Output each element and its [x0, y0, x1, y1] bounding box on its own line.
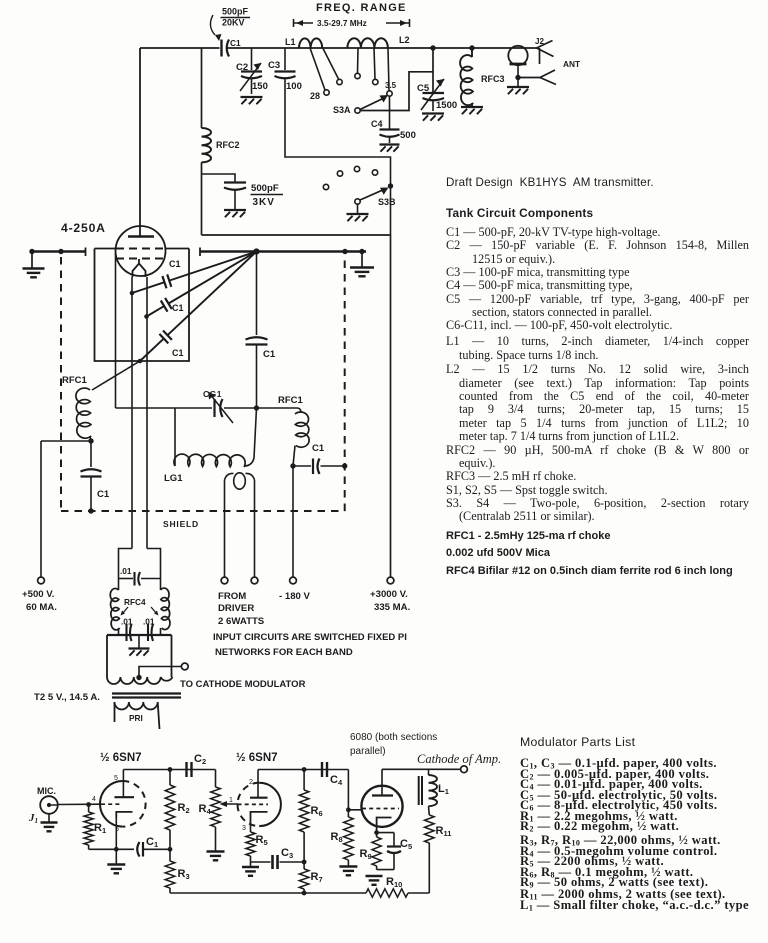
wire V4 plate to cathode-of-amp: [382, 768, 461, 770]
inductor L1-L2 tapped tank coil: [285, 35, 410, 48]
label FROM DRIVER: [218, 591, 265, 627]
svg-text:C1: C1: [169, 259, 181, 269]
wire RFC1b feed: [257, 407, 298, 409]
svg-text:RFC1: RFC1: [62, 375, 88, 386]
wire filament lead B: [146, 277, 148, 549]
tube V4 cathode: [377, 818, 392, 833]
wire plate supply left leg: [201, 48, 203, 235]
tube V1 4-250A envelope: [116, 226, 166, 276]
wire +3000V feed: [390, 235, 392, 577]
pin 5 V2: [114, 775, 118, 782]
wire V2 cathode down: [114, 818, 119, 864]
terminal +3000V: [387, 577, 394, 584]
capacitor C1 bypass a: [130, 252, 257, 296]
capacitor C4 500pF: [371, 96, 416, 143]
capacitor .01 lower right: [143, 617, 155, 642]
label -180V: [279, 591, 311, 602]
svg-text:- 180 V: - 180 V: [279, 591, 311, 602]
tube V4 grid (dashed): [362, 808, 399, 810]
wire filament lead A: [131, 277, 133, 549]
capacitor C1 bypass c: [138, 252, 257, 364]
capacitor C1 grid bypass: [290, 443, 347, 474]
svg-text:500: 500: [400, 130, 416, 141]
svg-text:C5: C5: [400, 838, 412, 851]
ground below C5: [422, 114, 444, 121]
node tank output junction: [430, 45, 435, 50]
tube V3 plate: [250, 770, 268, 798]
connector J2 jack: [535, 37, 554, 64]
svg-text:½ 6SN7: ½ 6SN7: [100, 752, 142, 764]
label 500pF/20KV with arrow: [210, 7, 250, 42]
svg-text:5: 5: [114, 775, 118, 782]
svg-text:28: 28: [310, 91, 320, 101]
terminal to cathode modulator: [181, 663, 188, 670]
svg-text:R11: R11: [436, 825, 452, 838]
wire RFC4 lower rail: [107, 634, 172, 636]
svg-text:C5: C5: [417, 83, 430, 94]
svg-text:+3000 V.: +3000 V.: [370, 589, 408, 600]
label Cathode of Amp: [417, 752, 501, 766]
svg-text:R1: R1: [94, 822, 106, 835]
label 500pF/3KV: [251, 183, 284, 208]
tube V4 plate: [372, 769, 393, 795]
pin 2 V3: [249, 779, 253, 786]
ground below R9: [366, 876, 383, 885]
wire J1 to V2 grid: [58, 802, 101, 807]
capacitor C4 coupling: [322, 762, 343, 787]
svg-text:100: 100: [286, 81, 302, 92]
choke RFC1 (bias side): [62, 375, 91, 441]
pin 1 V3: [229, 797, 233, 804]
svg-text:C1: C1: [172, 303, 184, 313]
svg-text:3.5: 3.5: [385, 81, 397, 90]
svg-text:C3: C3: [281, 847, 293, 860]
pin 3 V3: [242, 825, 246, 832]
svg-text:500pF: 500pF: [222, 7, 249, 17]
tube V2 plate: [115, 770, 135, 798]
svg-text:LG1: LG1: [164, 473, 183, 484]
terminal +500V: [38, 577, 45, 584]
svg-text:C2: C2: [236, 62, 248, 73]
label 3.5 tap: [385, 81, 397, 90]
svg-text:parallel): parallel): [350, 746, 386, 757]
svg-text:J2: J2: [535, 37, 544, 46]
svg-text:TO CATHODE MODULATOR: TO CATHODE MODULATOR: [180, 679, 306, 690]
capacitor C3 modulator: [251, 847, 307, 869]
label TO CATHODE MODULATOR: [180, 679, 306, 690]
svg-text:20KV: 20KV: [222, 18, 245, 28]
wire fan to RFC1a: [92, 361, 140, 390]
wire meter to ground: [515, 64, 520, 86]
label T2 5V 14.5A: [34, 692, 100, 703]
svg-text:NETWORKS FOR EACH BAND: NETWORKS FOR EACH BAND: [215, 647, 353, 658]
ground below J1: [41, 814, 58, 832]
pin 6 V2: [115, 826, 119, 833]
switch S3A: [333, 95, 388, 115]
svg-text:2: 2: [249, 779, 253, 786]
resistor R9: [360, 830, 382, 869]
svg-text:500pF: 500pF: [251, 183, 279, 194]
terminal FROM DRIVER a: [221, 577, 228, 584]
resistor R6: [299, 770, 322, 863]
svg-text:J1: J1: [28, 812, 38, 825]
svg-text:RFC1: RFC1: [278, 395, 304, 406]
tube V3 cathode: [251, 812, 268, 827]
terminal -180V: [290, 577, 297, 584]
ground at bus right: [350, 252, 374, 277]
label +3000V 335MA: [370, 589, 410, 613]
T2 core: [112, 694, 181, 698]
T2 secondary box: [107, 635, 172, 684]
svg-text:½ 6SN7: ½ 6SN7: [236, 752, 278, 764]
label 6080: [350, 732, 437, 757]
terminal cathode of amp: [461, 766, 468, 773]
terminal FROM DRIVER b: [251, 577, 258, 584]
svg-text:L2: L2: [399, 35, 410, 45]
jack J1 microphone: [28, 786, 58, 825]
tube V2 cathode: [116, 812, 132, 818]
ground below C2: [241, 97, 263, 104]
svg-text:CG1: CG1: [203, 389, 222, 399]
capacitor C2 coupling: [187, 753, 207, 777]
svg-text:C1: C1: [230, 38, 241, 48]
svg-text:3KV: 3KV: [253, 197, 275, 208]
wire C3 bottom to S3B rail: [285, 79, 391, 236]
capacitor C1 series 500pF 20kV: [222, 38, 241, 57]
wire tank top bus: [140, 47, 537, 49]
connector ANT jack: [518, 59, 580, 85]
label half 6SN7 first: [100, 752, 142, 764]
svg-text:C1: C1: [172, 348, 184, 358]
svg-text:RFC2: RFC2: [216, 140, 240, 150]
resistor R1: [84, 805, 106, 850]
svg-text:150: 150: [252, 81, 268, 92]
svg-text:MIC.: MIC.: [37, 786, 56, 796]
svg-text:R10: R10: [386, 876, 402, 889]
ground below RFC3: [461, 107, 483, 114]
choke RFC2: [202, 128, 240, 162]
wire modulator ground rail: [170, 892, 429, 894]
ground below V2 cathode: [107, 865, 125, 874]
svg-text:PRI: PRI: [129, 713, 143, 723]
coil tap wires to switch contacts: [310, 48, 392, 96]
resistor R4 volume control: [199, 770, 239, 852]
resistor R5: [246, 827, 268, 862]
tank circuit parts list text column: [446, 176, 749, 577]
capacitor C1 modulator: [116, 836, 170, 857]
ground below C4: [380, 145, 400, 152]
tube V3 half-6SN7 envelope: [238, 783, 281, 826]
switch S3B arm: [355, 183, 396, 207]
inductor L1 filter choke: [419, 769, 449, 815]
inductor LG1: [164, 408, 257, 484]
shield enclosure (dashed): [61, 256, 345, 511]
wire to cathode modulator tap: [136, 667, 181, 681]
resistor R2: [165, 770, 189, 852]
choke RFC4 bifilar: [110, 588, 170, 635]
resistor R10: [366, 876, 408, 897]
note input circuits: [213, 632, 407, 658]
ground at bus left: [23, 252, 45, 278]
svg-text:S3B: S3B: [378, 197, 396, 207]
wire screen bus left segment: [29, 248, 85, 257]
ground below meter: [507, 87, 529, 94]
svg-text:1: 1: [229, 797, 233, 804]
svg-text:1500: 1500: [436, 100, 457, 111]
svg-text:L1: L1: [285, 37, 296, 47]
svg-text:.01: .01: [143, 617, 155, 627]
label FREQ. RANGE: [316, 2, 407, 14]
freq range dimension line: [294, 18, 410, 28]
tube 4-250A grids (dashed): [116, 249, 165, 259]
ground below R4: [207, 852, 225, 861]
svg-text:C4: C4: [371, 119, 383, 129]
svg-text:3.5-29.7 MHz: 3.5-29.7 MHz: [317, 18, 367, 28]
svg-text:ANT: ANT: [563, 59, 580, 69]
capacitor C1 bypass d (vertical): [246, 252, 276, 409]
wire screen bus right segment: [200, 248, 366, 257]
svg-text:C3: C3: [268, 60, 280, 71]
resistor R11: [424, 815, 451, 893]
tube 4-250A filament: [133, 259, 146, 277]
tube V2 grid (dashed): [101, 803, 121, 805]
svg-text:RFC3: RFC3: [481, 74, 505, 84]
wire C4 to V4 grid: [346, 770, 362, 813]
capacitor C5 modulator: [377, 833, 413, 870]
wire bias feed: [41, 438, 94, 577]
capacitor .01 top: [119, 566, 161, 586]
tube V4 6080 envelope: [361, 786, 402, 827]
pin 4 V2: [92, 796, 96, 803]
wire V2 plate rail: [123, 767, 215, 772]
ground below S3B: [347, 204, 369, 221]
svg-text:C4: C4: [330, 774, 343, 787]
svg-text:L1: L1: [438, 783, 449, 796]
modulator parts list: [520, 735, 768, 911]
svg-text:SHIELD: SHIELD: [163, 519, 199, 529]
svg-text:DRIVER: DRIVER: [218, 603, 254, 614]
label 28 tap: [310, 91, 320, 101]
label 4-250A: [61, 221, 106, 235]
svg-text:C2: C2: [194, 753, 206, 766]
svg-text:S3A: S3A: [333, 105, 351, 115]
choke RFC1 (grid side): [278, 395, 309, 466]
tube V3 grid (dashed): [238, 803, 269, 805]
svg-text:C1: C1: [97, 489, 110, 500]
svg-text:FREQ. RANGE: FREQ. RANGE: [316, 2, 407, 14]
ground RFC4 network: [129, 635, 150, 656]
svg-text:60 MA.: 60 MA.: [26, 602, 57, 613]
label SHIELD: [163, 519, 199, 529]
capacitor CG1 variable: [116, 389, 260, 423]
svg-text:T2 5 V., 14.5 A.: T2 5 V., 14.5 A.: [34, 692, 100, 703]
svg-text:2 6WATTS: 2 6WATTS: [218, 616, 265, 627]
capacitor C2 variable 150pF: [236, 48, 268, 94]
wire grid lead: [115, 253, 117, 408]
svg-text:.01: .01: [120, 566, 132, 576]
svg-text:R2: R2: [178, 802, 190, 815]
ground below R8: [339, 867, 357, 876]
svg-text:4: 4: [92, 796, 96, 803]
capacitor .01 lower left: [121, 617, 133, 642]
svg-text:6080 (both sections: 6080 (both sections: [350, 732, 437, 743]
svg-text:R3: R3: [178, 868, 190, 881]
svg-text:R7: R7: [311, 871, 323, 884]
resistor R8: [331, 810, 354, 866]
tube V2 half-6SN7 envelope: [100, 781, 146, 827]
ground below 3KV cap: [224, 210, 246, 217]
ground below R5: [242, 862, 259, 876]
wire filament to RFC4: [119, 549, 161, 591]
resistor R7: [299, 862, 322, 895]
capacitor C1 bias bypass: [81, 441, 110, 514]
svg-text:RFC4: RFC4: [124, 597, 146, 607]
label half 6SN7 second: [236, 752, 278, 764]
capacitor C3 100pF: [268, 48, 302, 92]
wire twisted pair to driver: [225, 473, 255, 577]
resistor R3: [165, 849, 189, 893]
svg-text:R9: R9: [360, 848, 372, 861]
label +500V 60MA: [22, 589, 57, 613]
tube 4-250A plate: [128, 226, 154, 237]
wire -180V lead: [292, 466, 294, 577]
svg-text:.01: .01: [121, 617, 133, 627]
wire S3A pivot to C5 node: [360, 72, 433, 111]
svg-text:3: 3: [242, 825, 246, 832]
rf ammeter M1: [508, 46, 527, 65]
svg-text:R8: R8: [331, 831, 343, 844]
wire V3 plate rail: [258, 767, 348, 772]
svg-text:C1: C1: [312, 443, 325, 454]
svg-text:FROM: FROM: [218, 591, 246, 602]
svg-text:C1: C1: [146, 836, 158, 849]
capacitor C1 bypass b: [144, 252, 256, 319]
svg-text:4-250A: 4-250A: [61, 221, 106, 235]
choke RFC3: [460, 45, 504, 107]
wire HV bottom rail: [202, 234, 391, 236]
capacitor C5 variable 1200pF: [417, 48, 457, 111]
svg-text:R5: R5: [256, 834, 268, 847]
wire R1 bottom to cathode: [89, 848, 117, 850]
svg-text:Cathode of Amp.: Cathode of Amp.: [417, 752, 501, 766]
svg-text:+500 V.: +500 V.: [22, 589, 54, 600]
capacitor 500pF 3KV bypass: [202, 174, 247, 209]
svg-text:INPUT CIRCUITS ARE SWITCHED FI: INPUT CIRCUITS ARE SWITCHED FIXED PI: [213, 632, 407, 643]
svg-text:335 MA.: 335 MA.: [374, 602, 410, 613]
svg-text:R6: R6: [311, 805, 323, 818]
svg-text:C1: C1: [263, 349, 276, 360]
wire plate feed from tank to 4-250A anode: [139, 48, 141, 226]
grid compartment box: [95, 249, 190, 362]
switch S3B contacts: [323, 166, 377, 189]
T2 primary: [115, 702, 160, 729]
